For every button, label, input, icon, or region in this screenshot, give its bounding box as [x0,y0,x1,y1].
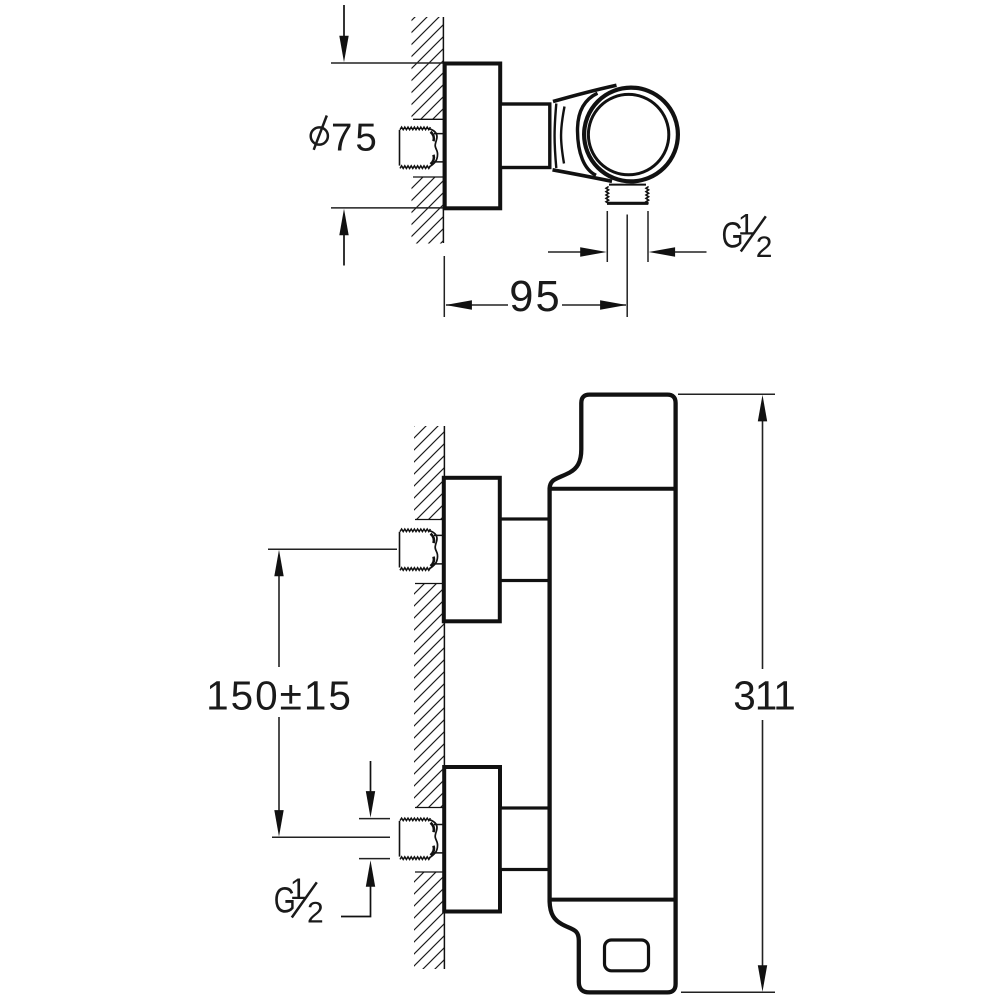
knob inner circle [588,94,668,174]
dimension 311 line and arrows [762,420,764,967]
dimension 311 extension lines [678,394,775,992]
wall pipe upper (bottom view) [400,529,430,532]
valve body outline [550,395,676,993]
elbow cone [553,85,617,181]
dimension G1/2 arrows [548,251,582,253]
dimension ø75 extension lines [331,63,444,208]
svg-text:2: 2 [307,897,324,930]
top union flange (bottom view) [444,478,500,622]
svg-text:95: 95 [509,273,561,321]
dimension G1/2 (bottom view) thread extension lines [359,819,390,859]
wall (bottom view) hatching [414,426,445,520]
G1/2 down arrow [370,761,372,793]
stem (top view) [500,104,550,168]
dimension ø75 bottom arrow [343,232,345,266]
body bottom seam [550,898,676,902]
dimension 150±15 extension lines [268,549,397,837]
wall face line (top view) [442,17,444,243]
body top seam [550,487,676,491]
svg-text:150±15: 150±15 [206,673,353,719]
dimension 95 extension lines [444,215,627,318]
knob outer circle [584,88,678,182]
bottom union flange (bottom view) [444,767,500,912]
svg-text:75: 75 [331,117,380,160]
top union stem [500,519,549,581]
outlet nipple G1/2 (top view) [609,184,646,186]
G1/2 up arrow with leader [366,860,375,887]
wall pipe lower (bottom view) [400,818,430,821]
bottom outlet port [605,940,649,971]
dimension 95 line and arrows [446,304,626,306]
label G1/2 (top view) [722,209,773,265]
label G1/2 (bottom view) [274,873,324,930]
wall face line (bottom view) [443,426,445,969]
dimension ø75 top arrow [343,5,345,40]
wall flange (top view) [445,64,501,209]
svg-text:311: 311 [733,673,795,719]
svg-text:2: 2 [756,231,773,264]
label ø75 [311,127,328,144]
dimension 150±15 line and arrows [278,575,280,812]
dimension G1/2 (top view) extension lines [607,211,648,262]
wall pipe (top view) [400,127,430,130]
bottom union stem [500,808,549,870]
wall (top view) hatching [412,17,444,119]
